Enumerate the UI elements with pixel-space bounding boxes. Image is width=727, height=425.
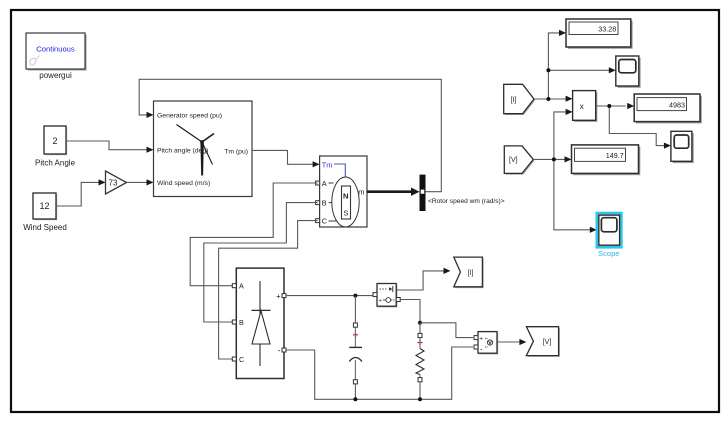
machine port pad A — [316, 181, 320, 185]
voltage measurement minus pad — [474, 345, 478, 349]
wire DC minus rail — [286, 347, 473, 399]
node resistor ground junction — [418, 397, 422, 401]
machine port pad C — [316, 219, 320, 223]
svg-text:[I]: [I] — [511, 97, 517, 104]
wire Pitch Angle constant to turbine pitch input — [66, 141, 154, 153]
node plus rail junction — [353, 294, 357, 298]
wire current measurement minus to load node — [400, 300, 420, 323]
feedback wire rotor speed to turbine generator speed input — [139, 79, 441, 191]
current measurement minus pad — [396, 298, 400, 302]
svg-text:B: B — [239, 318, 244, 327]
wire gain output to turbine wind speed input — [127, 179, 154, 185]
wire load node to resistor — [419, 323, 421, 334]
PMSM machine block U_PMSM — [320, 156, 367, 227]
wire current measurement signal to Goto I — [396, 268, 450, 290]
svg-text:33.28: 33.28 — [598, 24, 616, 33]
node capacitor ground junction — [353, 397, 357, 401]
scope block Scope2 — [671, 131, 694, 163]
gain block K=73 — [106, 171, 127, 194]
rectifier port pad plus — [282, 294, 286, 298]
powergui block U_powergui — [26, 33, 87, 80]
scope block Scope1 — [616, 56, 641, 88]
node I scope branch junction — [546, 68, 550, 72]
svg-text:-: - — [278, 345, 281, 355]
wire machine A to rectifier A — [190, 183, 317, 286]
svg-text:+: + — [479, 336, 483, 343]
goto tag I — [454, 257, 484, 288]
svg-text:B: B — [322, 199, 327, 208]
constant block Wind Speed (value 12) — [23, 193, 67, 232]
rectifier port pad C — [232, 357, 236, 361]
svg-text:N: N — [343, 192, 348, 201]
wire machine B to rectifier B — [204, 203, 318, 322]
display power (4983) — [634, 94, 702, 123]
svg-text:<Rotor speed wm (rad/s)>: <Rotor speed wm (rad/s)> — [428, 198, 505, 205]
node I branch junction — [546, 97, 550, 101]
svg-text:C: C — [322, 217, 328, 226]
svg-text:powergui: powergui — [39, 71, 72, 80]
svg-text:Pitch Angle: Pitch Angle — [35, 159, 76, 168]
wire plus rail to capacitor — [354, 296, 356, 323]
node load junction — [418, 321, 422, 325]
svg-text:A: A — [239, 282, 244, 291]
svg-text:12: 12 — [39, 201, 49, 211]
svg-text:4983: 4983 — [669, 100, 685, 109]
wire DC plus rail — [286, 295, 373, 297]
diode rectifier block D1 — [236, 268, 284, 378]
rectifier port pad A — [232, 284, 236, 288]
wire voltage measurement to Goto V — [497, 339, 526, 345]
rectifier port pad minus — [282, 348, 286, 352]
rectifier port pad B — [232, 320, 236, 324]
wire from V to display product and scope — [533, 109, 597, 233]
svg-text:[V]: [V] — [509, 157, 518, 164]
svg-text:C: C — [239, 355, 244, 364]
resistor R1 — [416, 333, 424, 381]
constant block Pitch Angle (value 2) — [35, 126, 76, 168]
current measurement input pad — [373, 293, 377, 297]
svg-text:Generator speed (pu): Generator speed (pu) — [157, 113, 222, 120]
wire from I to product and displays — [534, 30, 616, 102]
svg-text:+: + — [378, 298, 382, 305]
svg-text:2: 2 — [52, 136, 57, 146]
display current (33.28) — [566, 19, 633, 49]
svg-text:A: A — [322, 179, 327, 188]
from tag V — [504, 146, 534, 175]
thick measurement bus wire machine m to bus selector — [367, 188, 420, 196]
svg-text:+: + — [276, 292, 281, 301]
from tag I — [504, 84, 536, 115]
voltage measurement plus pad — [474, 336, 478, 340]
wire machine C to rectifier C — [219, 221, 318, 359]
wire Wind Speed constant to gain input — [56, 179, 106, 206]
svg-text:S: S — [343, 209, 348, 218]
svg-text:73: 73 — [109, 179, 118, 188]
capacitor C1 — [349, 323, 362, 384]
svg-text:Wind Speed: Wind Speed — [23, 223, 67, 232]
product block X1 — [573, 91, 598, 122]
svg-text:Tm (pu): Tm (pu) — [224, 148, 248, 155]
wire capacitor to ground rail — [354, 384, 356, 399]
node product output junction — [607, 104, 611, 108]
node V branch junction — [552, 157, 556, 161]
goto tag V — [526, 327, 560, 357]
svg-text:[I]: [I] — [468, 270, 474, 277]
svg-text:Tm: Tm — [322, 160, 333, 169]
bus selector — [420, 175, 426, 211]
voltage measurement block VM1 — [478, 332, 498, 355]
svg-text:Wind speed (m/s): Wind speed (m/s) — [157, 180, 210, 187]
svg-text:Scope: Scope — [598, 249, 619, 258]
svg-text:Continuous: Continuous — [36, 45, 75, 54]
current measurement block CM1 — [377, 284, 397, 308]
svg-text:149.7: 149.7 — [606, 151, 624, 160]
wire product output to display power and scope2 — [596, 103, 671, 149]
wind turbine block — [154, 101, 253, 197]
wire turbine Tm output to machine Tm input — [252, 150, 320, 167]
wire resistor to ground rail — [419, 382, 421, 400]
scope block Scope (selected) — [597, 213, 622, 258]
wire load node to voltage measurement plus — [420, 323, 473, 338]
svg-text:x: x — [580, 102, 584, 111]
svg-text:m: m — [358, 188, 364, 197]
svg-text:[V]: [V] — [543, 339, 552, 346]
display voltage (149.7) — [572, 145, 641, 175]
wind turbine rotor icon — [177, 125, 215, 176]
machine port pad B — [316, 201, 320, 205]
